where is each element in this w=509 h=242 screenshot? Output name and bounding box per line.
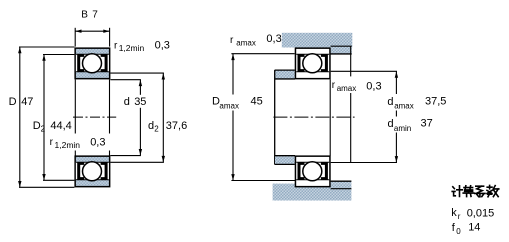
svg-text:37,6: 37,6: [166, 120, 187, 132]
svg-text:d: d: [387, 96, 393, 108]
svg-text:f: f: [452, 222, 456, 234]
svg-text:0,3: 0,3: [266, 33, 281, 45]
svg-text:0,015: 0,015: [467, 207, 495, 219]
svg-text:0,3: 0,3: [155, 39, 170, 51]
svg-text:37,5: 37,5: [425, 96, 446, 108]
svg-text:2: 2: [154, 125, 159, 134]
svg-text:r: r: [458, 212, 461, 221]
svg-text:r: r: [230, 35, 234, 46]
svg-text:0,3: 0,3: [366, 81, 381, 93]
svg-text:1,2min: 1,2min: [119, 43, 145, 53]
svg-text:amax: amax: [394, 101, 414, 110]
svg-text:44,4: 44,4: [50, 120, 71, 132]
svg-text:7: 7: [92, 9, 98, 20]
svg-text:14: 14: [468, 221, 480, 233]
svg-text:47: 47: [21, 96, 33, 108]
svg-text:amax: amax: [337, 84, 357, 93]
svg-text:r: r: [114, 40, 118, 51]
svg-text:D: D: [9, 96, 17, 108]
svg-text:37: 37: [421, 118, 433, 130]
svg-text:0,3: 0,3: [90, 136, 105, 148]
svg-text:35: 35: [134, 96, 146, 108]
svg-text:1,2min: 1,2min: [55, 140, 81, 150]
svg-text:d: d: [124, 96, 130, 108]
svg-text:2: 2: [41, 125, 46, 134]
svg-text:d: d: [388, 118, 394, 130]
svg-text:0: 0: [456, 227, 461, 236]
svg-text:k: k: [451, 207, 457, 219]
svg-text:amax: amax: [219, 101, 239, 110]
svg-text:45: 45: [251, 96, 263, 108]
svg-text:D: D: [33, 120, 41, 132]
svg-text:amin: amin: [394, 124, 411, 133]
svg-text:amax: amax: [236, 39, 256, 48]
svg-text:B: B: [81, 9, 88, 20]
